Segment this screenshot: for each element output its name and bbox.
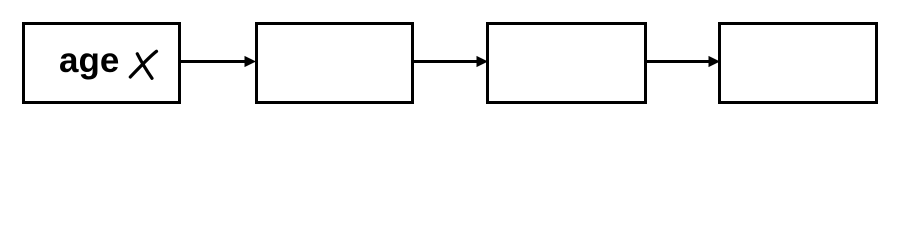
arrow 2: box2 -> box3 [412,56,488,67]
node box 4 [718,22,878,104]
node box 2 [255,22,414,104]
node box 3 [486,22,647,104]
node box 1 (age x) [22,22,181,104]
arrow 1: box1 -> box2 [180,56,256,67]
arrow 3: box3 -> box4 [645,56,720,67]
label "x" italic [130,51,156,78]
label "age" [59,41,119,81]
